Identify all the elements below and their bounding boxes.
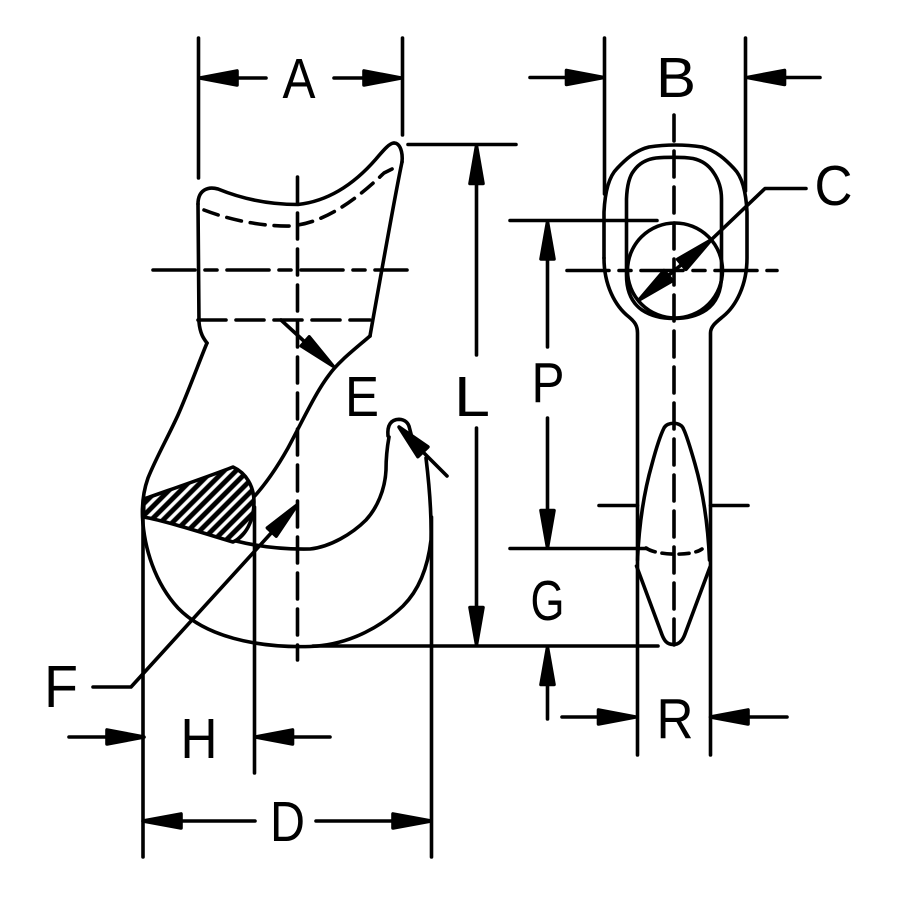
dim L bottom arrow (470, 608, 483, 645)
dim H arrow right (256, 730, 293, 744)
dim D extension right (430, 517, 434, 857)
eye outer contour left side (604, 258, 638, 755)
svg-text:E: E (345, 365, 379, 429)
svg-text:R: R (657, 687, 694, 751)
dim A arrow right (364, 71, 401, 85)
dim H arrow left (69, 735, 107, 739)
hook left edge (198, 204, 207, 343)
dim A extension line right (401, 38, 405, 135)
tip upper V (638, 423, 710, 560)
svg-text:B: B (656, 46, 696, 110)
tip tick right (711, 504, 749, 508)
centerline horizontal right view (567, 269, 777, 273)
dim D extension left (141, 506, 145, 857)
dim L line upper (475, 184, 479, 356)
dim P line lower (546, 418, 550, 511)
dim B arrow left (530, 76, 567, 80)
hook saddle top edge (198, 143, 394, 205)
dim P top line (510, 219, 657, 223)
svg-text:H: H (181, 707, 218, 771)
dim P line upper (546, 259, 550, 347)
eye inner hole (627, 157, 722, 318)
dim P bottom line (510, 547, 647, 551)
dim B extension right (744, 38, 748, 191)
F leader arrow (267, 505, 297, 536)
dim D arrow right (316, 819, 393, 823)
barb leader arrow (399, 427, 428, 457)
C arrow upper (678, 240, 711, 269)
hook outer bowl (142, 343, 431, 647)
svg-text:G: G (531, 569, 565, 633)
dashed line hook bottom of saddle (198, 318, 370, 322)
svg-text:F: F (44, 654, 78, 720)
dim R arrow left (562, 715, 599, 719)
E leader arrow (301, 337, 333, 366)
centerline vertical right view (672, 115, 676, 648)
hook right edge to corner (370, 162, 402, 336)
hook saddle inner dashed curve (204, 165, 400, 226)
chain stock circle C (628, 223, 723, 318)
hook saddle right tip cap (394, 143, 402, 162)
dim B extension left (603, 38, 607, 194)
dim A arrow left (200, 71, 237, 85)
centerline vertical left view (296, 177, 300, 660)
dim L line lower (475, 428, 479, 608)
dim B arrow right (748, 71, 785, 85)
C arrow lower (639, 271, 672, 300)
tip lower point (637, 566, 711, 645)
centerline horizontal left view (153, 268, 407, 272)
C leader line (711, 189, 806, 241)
hook barb tip (388, 419, 413, 439)
C diameter line (639, 240, 711, 300)
eye outer contour right side (604, 145, 747, 755)
dim G arrow below (541, 648, 554, 685)
tip tick left (599, 504, 638, 508)
dim L bottom line (313, 644, 658, 648)
dim L top arrow (470, 146, 483, 184)
dim A extension line left (197, 38, 201, 178)
svg-text:A: A (283, 47, 316, 111)
hatched section (144, 467, 255, 542)
dim L top line (408, 143, 516, 147)
svg-text:C: C (815, 154, 853, 218)
F leader line (93, 531, 273, 687)
svg-text:P: P (532, 351, 565, 415)
dim P bottom arrow (541, 511, 554, 548)
inner bowl curve from corner to hatch (252, 336, 370, 499)
svg-text:L: L (454, 365, 490, 429)
dim P top arrow (541, 222, 554, 259)
E leader line (281, 320, 306, 343)
dim R arrow right (711, 710, 749, 724)
barb leader line (421, 450, 447, 476)
svg-text:D: D (270, 790, 305, 854)
dim H extension right (253, 507, 257, 773)
dim D arrow left (143, 814, 181, 828)
inner bowl bottom curve hatch to barb (146, 437, 389, 549)
tip dashed hidden arc (646, 548, 702, 554)
